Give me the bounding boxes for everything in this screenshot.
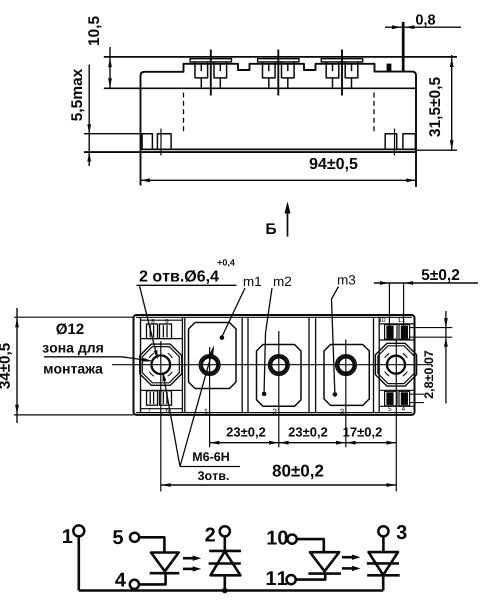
- terminal m1 hole M6: [202, 357, 218, 373]
- plan view: left end upper slot A: [147, 324, 158, 339]
- terminal group: screw axis line at x=342: [341, 50, 343, 96]
- plan view: left end upper slot B inner bar: [162, 325, 164, 337]
- right mounting boss octagon inner: [378, 346, 414, 384]
- terminal m2 hole M6: [271, 357, 287, 373]
- wire VS1 anode to rail: [224, 575, 227, 590]
- wire pin2 to photothyristor VS1 cathode: [224, 536, 227, 551]
- plan view: right end lower slot band lines: [379, 389, 414, 391]
- dimension chain line m1-m2-m3-hole: [210, 442, 397, 444]
- wire VS2 cathode to rail: [382, 575, 385, 590]
- side view: hidden edge dashed line right: [373, 93, 375, 132]
- pin number 5 label: [388, 407, 391, 412]
- leader m1 to pad dot: [222, 288, 245, 336]
- dimension 94±0,5 line with arrows: [140, 179, 416, 181]
- plan view: groove between m3 section and right end-cap: [373, 317, 375, 412]
- dimension 5±0,2 line and shelf: [374, 282, 478, 284]
- pin number 4 label: [402, 407, 405, 411]
- plan view: case lip inner top line: [136, 316, 412, 318]
- node 10 label: [267, 531, 287, 545]
- LED D2 cathode bar: [308, 572, 341, 575]
- fork centre tooth: [219, 64, 221, 71]
- left mounting boss octagon outer: [140, 344, 182, 385]
- label 3отв.: [198, 471, 229, 480]
- fork contact prong: [263, 62, 276, 78]
- plan view: groove between m2 and m3 sections: [308, 317, 310, 412]
- dimension 5,5max label: [71, 69, 84, 121]
- node 4 label: [115, 573, 126, 587]
- dimension 5±0,2 label: [422, 269, 460, 282]
- fork contact prong: [282, 62, 295, 78]
- pin 10 terminal circle: [288, 535, 297, 544]
- plan view: left end lower slot B inner bar: [162, 392, 164, 404]
- pad node number 3 label: [340, 409, 344, 415]
- terminal cap (bus-bar top plate): [190, 59, 231, 62]
- dimension 10,5 label: [88, 16, 101, 45]
- plan view: case lip inner bottom line: [136, 412, 412, 414]
- plan view: groove between left end and m1 section: [181, 317, 183, 412]
- photothyristor VS1 triangle: [211, 551, 241, 575]
- pin 3 terminal circle: [378, 526, 388, 536]
- dimension 5±0,2 extension lines into pins 10 and 11: [388, 283, 390, 339]
- terminal m2 vertical axis / dim extension: [278, 331, 280, 447]
- fork stem into housing: [268, 78, 270, 88]
- left hole vertical axis / 80-dim extension: [160, 341, 162, 492]
- left boss chamfer marks: [168, 372, 173, 377]
- dimension 0,8 shelf line: [385, 26, 461, 28]
- side view: mounting tab top extension line: [84, 133, 152, 135]
- optical coupling arrows D2 to VS2: [342, 556, 354, 559]
- dimension 10,5 line with arrows: [109, 47, 111, 88]
- plan view: groove between m1 and m2 sections: [241, 317, 243, 412]
- node 1 label: [63, 529, 72, 543]
- dimension 0,8 label: [416, 14, 435, 26]
- dimension 2,8±0,07 line with arrows: [445, 311, 447, 404]
- pin number 8 label: [151, 319, 154, 324]
- dimension 31,5±0,5 label: [429, 77, 442, 136]
- wire pin5 to LED D1 anode: [139, 537, 164, 552]
- wire pin3 to photothyristor VS2 anode: [382, 536, 385, 552]
- dimension 0,8 measured tab (thick line): [402, 22, 405, 72]
- plan view: right end upper slot of pin 10: [385, 325, 397, 340]
- label m1: [244, 277, 261, 286]
- fork centre tooth: [200, 64, 202, 71]
- leader m2 to pad dot: [264, 288, 272, 392]
- pad node number 1 label: [204, 409, 207, 415]
- pin number 9 label: [165, 319, 168, 324]
- side view: left mounting tab 1: [142, 134, 152, 150]
- dimension 23±0,2 second label: [289, 427, 328, 438]
- fork centre tooth: [287, 64, 289, 71]
- dimension 80±0,2 line with arrows: [161, 484, 396, 486]
- plan view: right end lower slot of pin 5: [385, 391, 397, 406]
- label M6-6H shelf line: [180, 466, 240, 468]
- side view: right tab axis tick: [394, 129, 396, 156]
- plan view: lower slot edge stub lines for 2,8 reference: [410, 393, 425, 395]
- contact pad m2 outline: [257, 345, 302, 407]
- contact pad m1 outline: [189, 323, 237, 389]
- leader M6-6H to left hole: [163, 375, 180, 467]
- contact pad m3 outline: [324, 345, 369, 406]
- view arrow Б label: [266, 223, 276, 234]
- plan view: left end upper slot B: [160, 324, 172, 339]
- side view: top datum line (common extension for 10,5 / 31,5 dims): [104, 56, 457, 58]
- pad node number 2 label: [273, 409, 277, 415]
- dimension 2,8±0,07 extension lines from pin slots: [410, 327, 453, 329]
- terminal m1 vertical axis / dim extension: [209, 347, 211, 447]
- fork stem into housing: [351, 78, 353, 88]
- terminal m3 hole M6: [338, 357, 354, 373]
- plan view: left end lower slot band lines: [141, 389, 183, 391]
- right mounting hole Ø6,4: [387, 356, 405, 374]
- right mounting boss octagon outer: [375, 343, 416, 386]
- side view: module body outline: [141, 64, 417, 187]
- dimension 34±0,5 line with arrows: [16, 308, 18, 423]
- node 5 label: [113, 530, 123, 544]
- LED D1 cathode bar: [150, 572, 180, 575]
- view arrow Б: [287, 204, 289, 237]
- left mounting hole Ø6,4: [152, 355, 171, 374]
- optical coupling arrows D1 to VS1: [183, 557, 195, 560]
- pin number 11 label: [398, 318, 404, 322]
- plan view: left end upper slot A inner bar: [149, 325, 151, 337]
- wire common bottom rail: [79, 589, 383, 592]
- dimension 34±0,5 label: [0, 343, 12, 389]
- side view: module body top surface line and its left extension: [104, 87, 416, 89]
- terminal group: screw axis line at x=210.8: [210, 50, 212, 96]
- terminal cap (bus-bar top plate): [321, 59, 362, 62]
- label Ø12 зона для монтажа: [56, 323, 83, 334]
- side view: body bottom line: [141, 148, 417, 150]
- photothyristor VS1 middle line: [209, 562, 241, 565]
- LED D2 triangle: [310, 552, 339, 571]
- plan view: right end lower slot of pin 4: [399, 391, 410, 406]
- plan view: horizontal centre axis: [112, 364, 432, 366]
- side view: base plate bottom line with left extension: [84, 151, 416, 153]
- wire pin10 to LED D2 anode: [297, 539, 324, 552]
- plan view: outer case outline: [134, 315, 415, 415]
- side view: right mounting tab 1: [385, 134, 397, 150]
- leader from 2 отв.Ø6,4 to left hole: [139, 285, 156, 355]
- plan view: left end-cap joint line: [140, 317, 142, 412]
- terminal group: screw axis line at x=278.3: [277, 50, 279, 96]
- fork contact prong: [214, 62, 227, 78]
- side view: right mounting tab 2: [403, 134, 416, 150]
- fork stem into housing: [200, 78, 202, 88]
- label 2 отв.Ø6,4 underline: [137, 284, 237, 286]
- pin 1 terminal circle: [73, 525, 84, 536]
- plan view: left end lower slot A inner bar: [149, 392, 151, 404]
- terminal m3 vertical axis / dim extension: [345, 340, 347, 448]
- right boss chamfer marks: [403, 372, 408, 377]
- dimension 17±0,2 label: [343, 427, 381, 438]
- leader m3 to pad dot: [332, 287, 339, 393]
- pin number 10 label: [379, 317, 385, 322]
- label 2 отв.Ø6,4 with tolerance: [140, 270, 219, 284]
- pin 4 terminal circle: [130, 580, 139, 589]
- LED D1 triangle: [151, 553, 179, 572]
- label m3: [338, 275, 355, 285]
- wire pin1 down to common rail: [78, 536, 81, 590]
- label m2: [274, 277, 291, 286]
- dimension 5,5max line with arrows: [88, 65, 90, 167]
- fork contact prong: [326, 62, 339, 78]
- side view: hidden edge dashed line left: [183, 93, 185, 132]
- leader M6-6H to terminal m1 hole: [180, 348, 213, 466]
- pin number 6 label: [166, 408, 169, 413]
- label Ø12 underline and leader to boss: [44, 357, 151, 361]
- dimension 31,5±0,5 line with arrows: [451, 55, 453, 150]
- pin 2 terminal circle: [220, 526, 230, 536]
- photothyristor VS1 cathode bar: [209, 550, 241, 553]
- terminal m1 thread circle: [199, 355, 220, 376]
- dimension 80±0,2 label: [273, 465, 324, 480]
- node 3 label: [397, 525, 407, 539]
- terminal cap (bus-bar top plate): [258, 59, 299, 62]
- side view: small rib on right ledge: [387, 64, 392, 72]
- photothyristor VS2 triangle: [369, 552, 399, 575]
- terminal m2 thread circle: [269, 355, 290, 376]
- photothyristor VS2 cathode bar: [367, 574, 400, 577]
- dimension 94±0,5 label: [310, 158, 358, 172]
- node 2 label: [205, 528, 215, 542]
- fork centre tooth: [351, 64, 353, 71]
- dimension 5±0,2 arrows: [380, 281, 390, 285]
- plan view: left end lower slot A: [147, 391, 158, 405]
- dimension chain arrows: [210, 441, 220, 445]
- junction dot on rail: [222, 588, 228, 594]
- dimension 2,8±0,07 label: [424, 351, 435, 399]
- dimension 31,5±0,5 bottom extension line: [417, 149, 457, 151]
- fork stem into housing: [332, 78, 334, 88]
- fork contact prong: [195, 62, 208, 78]
- wire pin11 to LED D2 cathode: [296, 574, 326, 580]
- right hole vertical axis / 80-dim extension: [395, 341, 397, 492]
- dimension 0,8 arrows: [392, 25, 402, 29]
- fork stem into housing: [287, 78, 289, 88]
- side view: left mounting tab 2: [157, 134, 171, 150]
- terminal m3 thread circle: [336, 355, 357, 376]
- wire pin4 to LED D1 cathode: [139, 573, 166, 584]
- plan view: left end upper slot band lines: [141, 319, 183, 321]
- fork centre tooth: [332, 64, 334, 71]
- left mounting boss octagon inner: [142, 347, 179, 383]
- fork centre tooth: [268, 64, 270, 71]
- fork contact prong: [345, 62, 358, 78]
- fork stem into housing: [219, 78, 221, 88]
- plan view: right end upper slot band lines: [379, 323, 414, 325]
- side view: left tab axis tick: [160, 129, 162, 156]
- photothyristor VS2 middle line: [367, 562, 399, 565]
- pin number 7 label: [148, 408, 151, 412]
- dimension 34±0,5 extension lines: [14, 316, 134, 318]
- plan view: left end lower slot B: [160, 391, 172, 405]
- pin 5 terminal circle: [130, 533, 139, 542]
- plan view: right end upper slot of pin 11: [399, 325, 410, 340]
- pin 11 terminal circle: [287, 575, 296, 584]
- node 11 label: [267, 571, 287, 585]
- label M6-6H: [193, 452, 229, 461]
- dimension 23±0,2 first label: [227, 427, 266, 438]
